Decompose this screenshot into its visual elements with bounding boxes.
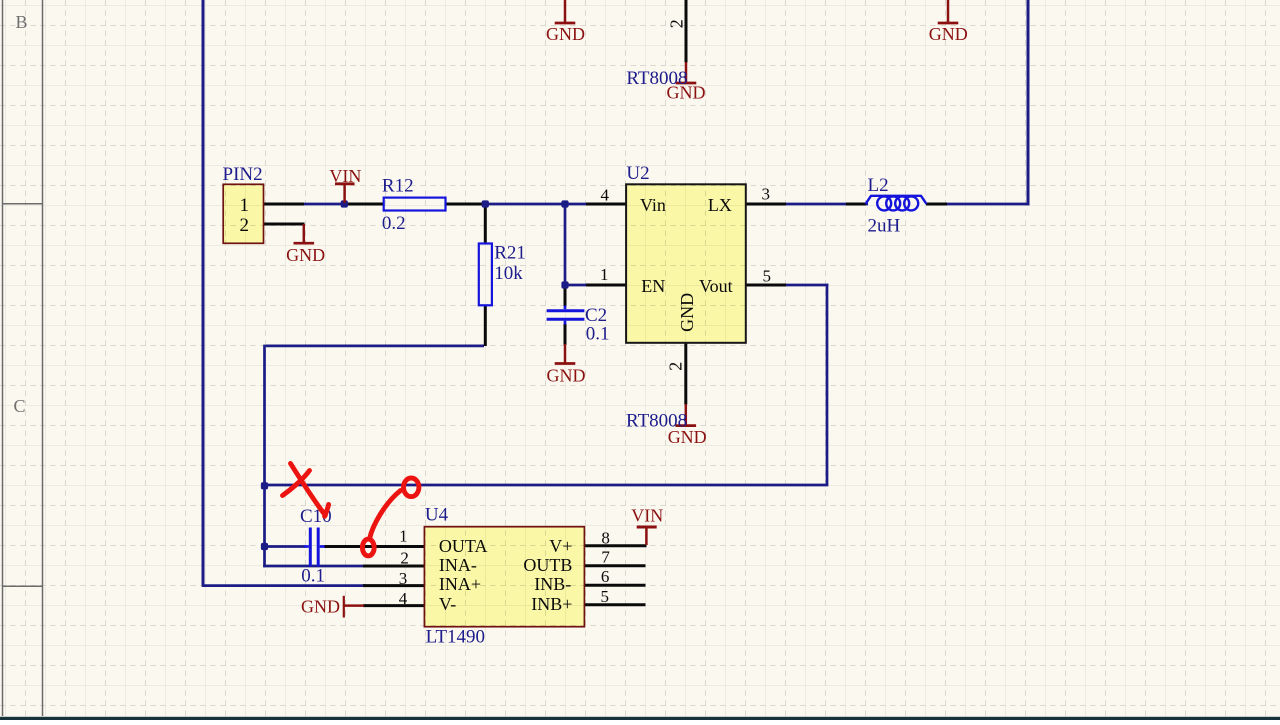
svg-text:GND: GND xyxy=(301,597,340,617)
svg-text:1: 1 xyxy=(240,195,250,216)
svg-text:GND: GND xyxy=(677,293,697,332)
svg-text:U2: U2 xyxy=(626,163,649,184)
svg-text:0.2: 0.2 xyxy=(382,213,406,234)
svg-text:GND: GND xyxy=(547,365,586,385)
svg-text:VIN: VIN xyxy=(631,506,663,526)
svg-text:INB-: INB- xyxy=(534,574,571,594)
svg-text:L2: L2 xyxy=(868,175,889,196)
svg-text:Vin: Vin xyxy=(640,195,666,215)
svg-text:VIN: VIN xyxy=(329,166,361,186)
svg-text:GND: GND xyxy=(667,83,706,103)
svg-text:5: 5 xyxy=(601,587,610,606)
svg-text:V+: V+ xyxy=(549,536,572,556)
svg-text:INB+: INB+ xyxy=(531,594,572,614)
svg-text:3: 3 xyxy=(761,185,770,204)
svg-text:LT1490: LT1490 xyxy=(426,627,485,648)
svg-text:2uH: 2uH xyxy=(868,216,901,237)
svg-text:GND: GND xyxy=(668,427,707,447)
svg-text:INA-: INA- xyxy=(439,555,477,575)
svg-text:Vout: Vout xyxy=(699,276,733,296)
svg-text:2: 2 xyxy=(400,548,409,567)
svg-text:PIN2: PIN2 xyxy=(223,164,263,185)
svg-text:U4: U4 xyxy=(425,505,449,526)
svg-text:LX: LX xyxy=(708,195,732,215)
svg-text:B: B xyxy=(15,12,27,32)
svg-text:C: C xyxy=(13,396,25,416)
svg-text:0.1: 0.1 xyxy=(586,324,610,345)
svg-text:4: 4 xyxy=(399,589,408,608)
svg-text:7: 7 xyxy=(601,548,610,567)
svg-text:1: 1 xyxy=(399,526,408,545)
svg-text:5: 5 xyxy=(763,266,772,285)
svg-text:2: 2 xyxy=(667,19,687,28)
svg-text:6: 6 xyxy=(601,567,610,586)
svg-text:R21: R21 xyxy=(494,243,526,264)
svg-text:OUTB: OUTB xyxy=(523,555,572,575)
svg-text:8: 8 xyxy=(601,529,610,548)
svg-text:R12: R12 xyxy=(382,176,414,197)
svg-text:10k: 10k xyxy=(494,263,523,284)
svg-text:GND: GND xyxy=(546,24,585,44)
svg-text:4: 4 xyxy=(601,186,610,205)
svg-text:INA+: INA+ xyxy=(439,574,481,594)
svg-text:V-: V- xyxy=(439,594,456,614)
svg-text:GND: GND xyxy=(929,24,968,44)
svg-text:2: 2 xyxy=(240,215,250,236)
svg-text:1: 1 xyxy=(600,265,609,284)
svg-text:GND: GND xyxy=(286,245,325,265)
svg-text:2: 2 xyxy=(666,362,686,371)
svg-text:0.1: 0.1 xyxy=(301,566,325,587)
svg-text:3: 3 xyxy=(399,569,408,588)
svg-text:EN: EN xyxy=(641,276,665,296)
svg-text:OUTA: OUTA xyxy=(439,536,488,556)
